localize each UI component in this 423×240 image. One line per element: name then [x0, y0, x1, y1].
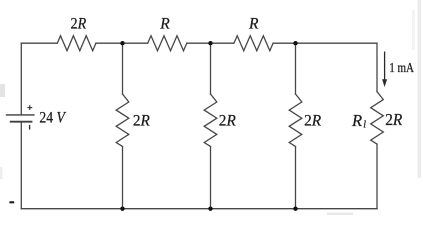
wire shunt3 upper — [295, 43, 297, 94]
svg-text:R: R — [248, 16, 259, 33]
current arrow 1 mA — [382, 52, 387, 88]
wire shunt2 lower — [210, 147, 212, 209]
svg-text:1 mA: 1 mA — [389, 61, 415, 76]
wire shunt1 lower — [122, 147, 124, 209]
node E (bottom of shunt2) — [208, 207, 212, 211]
scan artifact right edge — [418, 0, 422, 178]
scan artifact left edge lower — [0, 167, 3, 179]
node B (top, after R2) — [208, 41, 212, 45]
node C (top, after R3) — [293, 41, 297, 45]
wire shunt1 upper — [122, 43, 124, 94]
resistor shunt3 (2R) — [289, 94, 302, 147]
battery V1 bottom plate (-) — [10, 121, 33, 123]
resistor shunt1 (2R) — [116, 94, 129, 147]
wire right side lower — [376, 144, 378, 209]
wire R2 to node B — [187, 42, 234, 44]
wire left side upper (corner to battery +) — [20, 43, 22, 114]
wire R3 to top-right corner — [273, 42, 377, 44]
svg-text:R: R — [351, 111, 362, 130]
wire bottom rail — [21, 208, 377, 210]
node F (bottom of shunt3) — [293, 207, 297, 211]
svg-text:2R: 2R — [304, 112, 322, 129]
svg-text:2R: 2R — [385, 110, 402, 129]
resistor shunt2 (2R) — [204, 94, 217, 147]
battery minus tick — [29, 125, 31, 130]
resistor R1 (2R, top left) — [57, 36, 96, 51]
wire left side lower (battery - to bottom corner) — [20, 122, 22, 209]
resistor RL (2R, right branch) — [371, 92, 384, 145]
minus polarity mark bottom left — [9, 201, 14, 203]
wire top-left to R1 — [21, 42, 57, 44]
resistor R2 (R, top middle) — [148, 36, 187, 51]
wire shunt3 lower — [295, 147, 297, 209]
scan artifact left edge upper — [0, 84, 5, 97]
node D (bottom of shunt1) — [120, 207, 124, 211]
svg-text:2R: 2R — [71, 16, 87, 33]
node A (top, after R1) — [120, 41, 124, 45]
svg-text:2R: 2R — [133, 112, 151, 129]
resistor R3 (R, top right) — [234, 36, 273, 51]
wire right side upper — [376, 43, 378, 91]
svg-text:24 V: 24 V — [39, 110, 66, 127]
wire shunt2 upper — [210, 43, 212, 94]
wire R1 to node A — [96, 42, 148, 44]
svg-text:R: R — [159, 16, 170, 33]
svg-text:2R: 2R — [219, 112, 237, 129]
battery plus sign — [27, 105, 32, 110]
svg-text:l: l — [363, 120, 366, 131]
battery V1 top plate (+) — [6, 114, 35, 116]
